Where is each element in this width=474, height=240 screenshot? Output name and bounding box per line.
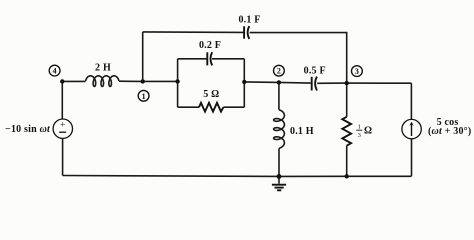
node 2 <box>274 65 285 76</box>
junction dot box right <box>242 80 246 84</box>
wire source to bottom left corner <box>62 138 64 175</box>
wire box bottom rail right <box>223 106 244 108</box>
wire main rail box right to node 2 to 0.5F <box>244 82 310 83</box>
svg-text:0.5 F: 0.5 F <box>304 65 326 76</box>
svg-text:1: 1 <box>142 92 146 101</box>
inductor L1 2 H coil <box>86 76 120 87</box>
resistor R2 one-third ohm zigzag <box>342 117 351 146</box>
wire top rail right of 0.1F down to node 3 <box>250 33 347 83</box>
capacitor C2 0.2 F plates <box>207 52 212 65</box>
svg-text:5 Ω: 5 Ω <box>203 89 219 100</box>
junction dot node3 <box>345 81 349 85</box>
junction dot node1 <box>141 79 145 83</box>
ground bars <box>272 185 286 191</box>
node 1 <box>138 90 149 101</box>
wire main rail left segment <box>62 80 85 82</box>
junction dot node2 <box>277 80 281 84</box>
svg-text:(ωt + 30°): (ωt + 30°) <box>428 126 471 137</box>
wire node3 vertical main rail to resistor <box>346 83 348 117</box>
wire main rail from coil to box left <box>119 80 178 82</box>
junction dot node4 <box>60 79 64 83</box>
capacitor C1 0.1 F plates <box>244 26 249 39</box>
svg-text:2 H: 2 H <box>95 63 111 74</box>
svg-text:0.2 F: 0.2 F <box>199 40 221 51</box>
svg-text:3: 3 <box>358 132 361 139</box>
wire bottom rail <box>63 175 412 178</box>
inductor L2 0.1 H coil <box>274 110 285 149</box>
junction dot box left <box>175 79 179 83</box>
capacitor C3 0.5 F plates <box>312 77 317 91</box>
source V1 circle with plus minus <box>53 119 72 138</box>
wire coil to bottom rail <box>278 148 280 176</box>
wire right branch from corner down to source <box>410 83 412 119</box>
parallel box right vertical <box>243 59 245 107</box>
svg-text:2: 2 <box>277 67 281 76</box>
label one-third ohm <box>356 124 372 139</box>
wire left branch down from node4 junction <box>61 81 63 119</box>
svg-text:Ω: Ω <box>364 126 372 137</box>
node 4 <box>49 65 60 76</box>
svg-text:+: + <box>60 120 65 130</box>
wire resistor to bottom rail <box>346 146 348 177</box>
ground stub <box>278 176 280 183</box>
junction dot ground <box>277 174 282 179</box>
wire source to bottom rail <box>411 139 413 177</box>
wire node1 vertical up to top rail <box>142 32 144 82</box>
parallel box left vertical <box>177 59 179 107</box>
wire 0.5F to node3 junction to right corner <box>317 82 411 84</box>
junction dot resistor bottom <box>345 174 349 178</box>
source I1 circle with arrow <box>402 119 421 138</box>
svg-text:0.1 H: 0.1 H <box>290 126 314 137</box>
wire top rail left of 0.1F <box>143 31 244 34</box>
node 3 <box>352 66 363 77</box>
wire node2 branch down to coil <box>278 82 280 109</box>
resistor R1 5 ohm zigzag <box>199 103 223 112</box>
svg-text:4: 4 <box>53 67 57 76</box>
svg-text:3: 3 <box>355 67 359 76</box>
svg-text:1: 1 <box>358 124 361 131</box>
wire box top rail <box>178 58 245 60</box>
svg-text:−10 sin ωt: −10 sin ωt <box>5 124 51 135</box>
wire box bottom rail left <box>178 106 199 108</box>
svg-text:0.1 F: 0.1 F <box>238 14 260 25</box>
